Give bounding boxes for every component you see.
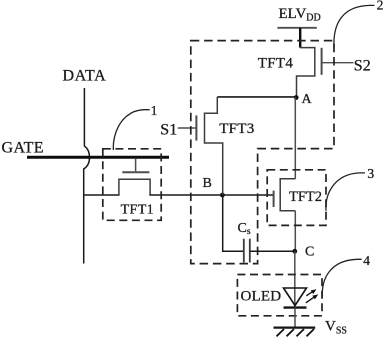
control line S2 xyxy=(322,62,354,64)
wire capacitor Cs to node C xyxy=(250,250,295,252)
transistor TFT2 xyxy=(274,179,296,211)
svg-text:TFT4: TFT4 xyxy=(258,56,294,72)
wire OLED to ground xyxy=(294,308,296,328)
dashed box 4 xyxy=(237,275,322,316)
svg-text:3: 3 xyxy=(367,166,374,181)
junction node A xyxy=(294,95,299,100)
capacitor Cs xyxy=(244,239,250,263)
reference numeral 4 xyxy=(322,253,370,297)
wire GATE line xyxy=(27,156,169,159)
wire TFT3 to node A xyxy=(217,96,296,98)
wire TFT2 to node C xyxy=(294,211,296,252)
svg-text:TFT2: TFT2 xyxy=(289,189,322,205)
svg-text:TFT3: TFT3 xyxy=(219,121,254,137)
wire node B to capacitor Cs xyxy=(223,195,244,251)
svg-text:B: B xyxy=(203,176,212,191)
svg-text:S2: S2 xyxy=(354,57,371,74)
svg-text:A: A xyxy=(302,92,313,107)
transistor TFT4 xyxy=(297,48,322,98)
power rail ELVDD xyxy=(277,28,316,48)
svg-text:S1: S1 xyxy=(160,122,177,139)
light emission arrows xyxy=(306,289,319,303)
svg-text:TFT1: TFT1 xyxy=(121,203,155,218)
wire node A to TFT2 xyxy=(294,98,296,179)
svg-text:1: 1 xyxy=(151,103,158,118)
svg-text:GATE: GATE xyxy=(2,140,44,157)
svg-text:C: C xyxy=(305,244,314,259)
reference numeral 2 xyxy=(334,0,383,48)
transistor TFT3 xyxy=(196,97,222,195)
dashed box 1 xyxy=(103,149,161,221)
ground VSS xyxy=(274,328,316,337)
diode OLED xyxy=(284,288,307,308)
control line S1 xyxy=(178,127,197,129)
dashed box 3 xyxy=(267,170,326,226)
junction node B xyxy=(220,193,225,198)
svg-text:2: 2 xyxy=(377,0,383,13)
svg-text:OLED: OLED xyxy=(241,289,282,305)
reference numeral 1 xyxy=(113,103,157,150)
wire DATA to TFT1 source xyxy=(84,194,120,196)
dashed box 2 xyxy=(191,41,334,264)
reference numeral 3 xyxy=(326,166,374,211)
wire node C to OLED xyxy=(294,251,296,307)
wire DATA line xyxy=(84,88,90,264)
wire TFT1 drain to node B to TFT2 gate xyxy=(149,194,273,196)
svg-text:DATA: DATA xyxy=(63,68,107,85)
transistor TFT1 xyxy=(119,159,150,195)
junction node C xyxy=(292,249,297,254)
svg-text:4: 4 xyxy=(363,253,370,268)
